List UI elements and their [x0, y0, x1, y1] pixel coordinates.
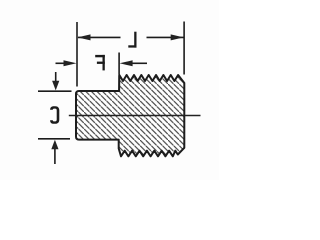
- head/thread junction face line: [118, 76, 120, 92]
- L dimension: left extension line: [76, 22, 78, 87]
- L dimension line left segment with left arrow: [78, 34, 121, 40]
- label C (mirrored): [50, 106, 59, 124]
- C dimension down arrow: [52, 72, 59, 90]
- F dimension: right extension line: [118, 53, 120, 75]
- L dimension line right segment with right arrow: [147, 34, 184, 40]
- L dimension: right extension line: [183, 22, 185, 75]
- centerline: [69, 115, 201, 117]
- C dimension: top extension line: [38, 90, 72, 92]
- F dimension line left part with right-pointing arrow: [56, 60, 77, 66]
- label F (mirrored): [95, 55, 105, 71]
- C dimension up arrow: [51, 140, 58, 164]
- F dimension line right part with left-pointing arrow: [120, 60, 147, 66]
- label L (mirrored): [128, 32, 136, 48]
- plug body with threads and square head (hatched section): [76, 75, 184, 156]
- C dimension: bottom extension line: [38, 138, 70, 140]
